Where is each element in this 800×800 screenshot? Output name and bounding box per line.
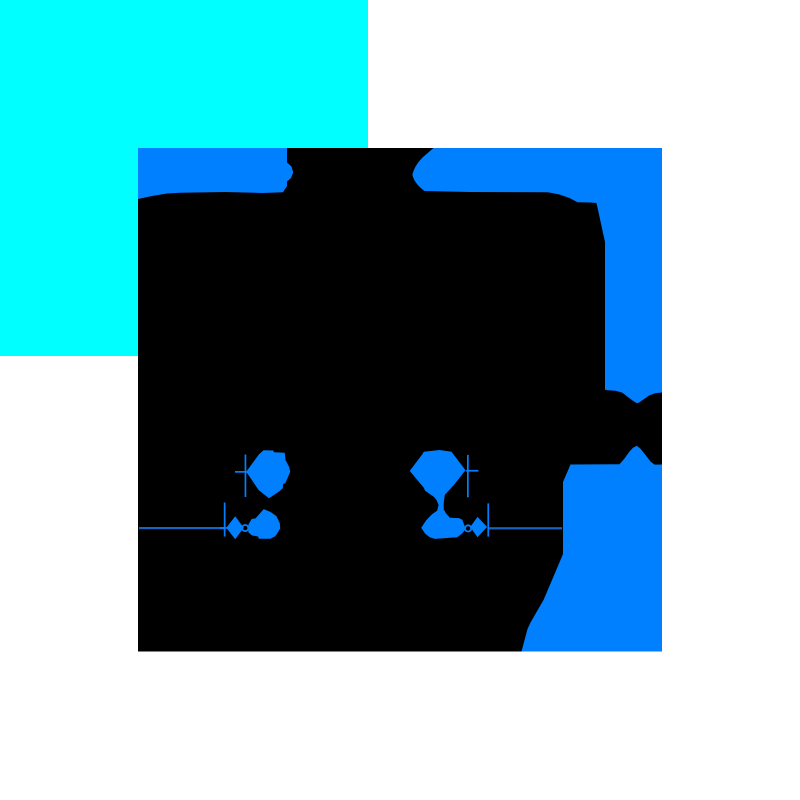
right cluster crosshair bottom vertical: [487, 503, 489, 536]
left cluster diamond: [226, 516, 243, 539]
right cluster crosshair top horizontal: [466, 470, 478, 472]
left cluster crosshair top horizontal: [235, 471, 252, 473]
thin dimension line right: [488, 527, 562, 529]
right cluster diamond: [470, 517, 487, 537]
right cluster ring: [465, 525, 471, 531]
blue band left piece: [138, 148, 293, 199]
left cluster crosshair bottom horizontal: [220, 527, 228, 529]
left cluster crosshair bottom vertical: [224, 503, 226, 537]
right cluster crosshair top vertical: [467, 455, 469, 497]
cyan square: [0, 0, 368, 356]
right cluster big blob with funnel and lower blob (hourglass): [410, 450, 466, 539]
left cluster ring: [242, 525, 248, 531]
left cluster crosshair top vertical: [245, 455, 247, 498]
thin dimension line left: [139, 527, 226, 529]
left cluster medium blob: [248, 509, 280, 539]
black square: [138, 148, 662, 652]
blue band right piece with vertical bar: [412, 148, 662, 403]
blue bottom wedge with dome: [522, 446, 663, 652]
left cluster big blob: [246, 450, 290, 498]
